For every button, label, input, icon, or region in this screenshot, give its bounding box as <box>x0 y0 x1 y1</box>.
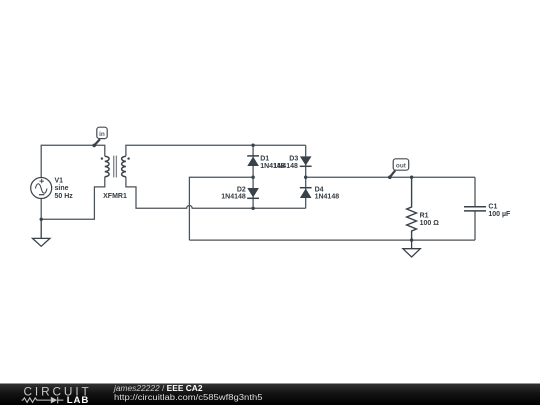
wire V1 top to transformer primary top <box>41 145 105 177</box>
wire bridge right column <box>305 145 307 208</box>
svg-text:D2: D2 <box>237 186 246 193</box>
wire transformer secondary top to bridge top rail <box>126 145 306 156</box>
svg-text:D1: D1 <box>260 156 269 163</box>
CircuitLab logo schematic line with resistor and diode <box>22 397 64 404</box>
svg-text:C1: C1 <box>488 204 497 211</box>
svg-text:D4: D4 <box>315 186 324 193</box>
diode D2 <box>247 188 259 198</box>
wire out rail from bridge to C1 <box>306 176 475 178</box>
diode D4 <box>300 188 312 198</box>
node junction dot bridge bottom left <box>251 207 254 210</box>
node junction dot at V1 bottom <box>40 218 43 221</box>
svg-text:james22222 / EEE CA2: james22222 / EEE CA2 <box>113 384 203 393</box>
svg-text:out: out <box>396 163 407 170</box>
svg-text:in: in <box>99 131 105 138</box>
node junction dot bridge top left <box>251 144 254 147</box>
svg-text:50 Hz: 50 Hz <box>55 193 74 200</box>
wire V1 bottom to ground junction <box>40 199 42 220</box>
label D2 1N4148 <box>221 186 246 200</box>
node junction dot R1 top <box>410 176 413 179</box>
capacitor C1 <box>464 177 486 240</box>
diode D3 <box>300 156 312 166</box>
svg-text:V1: V1 <box>55 177 64 184</box>
label D1 1N4148 <box>260 156 285 170</box>
svg-text:D3: D3 <box>289 156 298 163</box>
label R1 100 Ohm <box>420 212 440 227</box>
svg-text:LAB: LAB <box>67 395 89 405</box>
node junction dot R1 bottom <box>410 238 413 241</box>
ground symbol below V1 <box>33 219 50 246</box>
transformer XFMR1 <box>101 156 130 200</box>
label V1 sine 50 Hz <box>55 177 74 200</box>
svg-text:100 µF: 100 µF <box>488 211 511 218</box>
node junction dot D3 D4 <box>304 176 307 179</box>
label D4 1N4148 <box>315 186 340 200</box>
svg-text:sine: sine <box>55 185 69 192</box>
node junction dot D1 D2 <box>251 176 254 179</box>
resistor R1 <box>407 177 417 240</box>
ground symbol below R1 <box>403 240 420 257</box>
wire bridge left column <box>252 145 254 208</box>
svg-text:R1: R1 <box>420 212 429 219</box>
label D3 1N4148 <box>273 156 298 170</box>
svg-text:XFMR1: XFMR1 <box>103 193 127 200</box>
footer bar <box>0 384 540 405</box>
svg-text:1N4148: 1N4148 <box>273 163 298 170</box>
wire transformer secondary bottom to bridge bottom rail with hop over vertical <box>126 177 306 209</box>
label C1 100 uF <box>488 204 511 218</box>
svg-text:1N4148: 1N4148 <box>315 194 340 201</box>
diode D1 <box>247 156 259 166</box>
wire left AC node to bottom output rail <box>189 177 253 240</box>
svg-text:http://circuitlab.com/c585wf8g: http://circuitlab.com/c585wf8g3nth5 <box>114 393 263 402</box>
svg-text:1N4148: 1N4148 <box>221 194 246 201</box>
node label out <box>388 159 409 179</box>
node label in <box>92 127 107 147</box>
wire ground junction to transformer primary bottom <box>41 177 105 220</box>
wire bottom output rail <box>189 239 475 241</box>
voltage source V1 <box>31 178 52 199</box>
svg-text:100 Ω: 100 Ω <box>420 220 440 227</box>
